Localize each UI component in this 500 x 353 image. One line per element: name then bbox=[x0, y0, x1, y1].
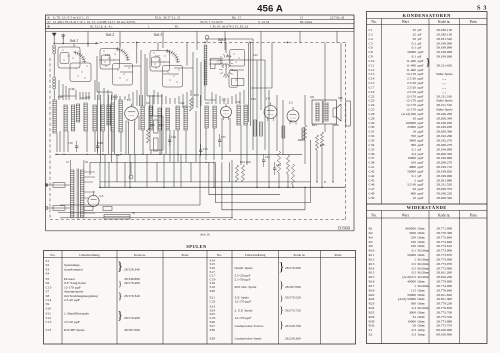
svg-text:28.773.880: 28.773.880 bbox=[436, 319, 452, 323]
svg-text:2: 2 bbox=[414, 178, 416, 182]
wire mesh lower left bbox=[45, 54, 345, 219]
svg-text:C22: C22 bbox=[369, 94, 375, 98]
svg-text:100000: 100000 bbox=[406, 121, 417, 125]
resistor R14 bbox=[45, 54, 345, 219]
svg-text:0.5: 0.5 bbox=[412, 262, 417, 266]
svg-text:28.587.690: 28.587.690 bbox=[124, 328, 140, 332]
svg-text:C11: C11 bbox=[369, 63, 375, 67]
svg-text:28.775.550: 28.775.550 bbox=[436, 315, 452, 319]
coil group RF bbox=[45, 54, 350, 219]
svg-text:C22: C22 bbox=[210, 299, 216, 303]
svg-text:28.811.280: 28.811.280 bbox=[436, 271, 452, 275]
svg-text:58.770.300: 58.770.300 bbox=[436, 231, 452, 235]
wire mesh mid bbox=[45, 54, 345, 219]
svg-text:29.180.130: 29.180.130 bbox=[436, 32, 452, 36]
svg-text:µµF: µµF bbox=[418, 59, 424, 63]
svg-text:10: 10 bbox=[413, 196, 417, 200]
svg-text:3.5-30: 3.5-30 bbox=[407, 183, 416, 187]
bus wire y162 bbox=[90, 161, 214, 163]
svg-text:28.199.990: 28.199.990 bbox=[436, 156, 452, 160]
svg-text:0.1: 0.1 bbox=[412, 147, 417, 151]
svg-text:R14: R14 bbox=[369, 266, 375, 270]
svg-text:C30: C30 bbox=[369, 125, 375, 129]
svg-text:Lautsprecher Spule: Lautsprecher Spule bbox=[235, 337, 263, 341]
svg-text:800: 800 bbox=[411, 192, 417, 196]
svg-text:26.229.260: 26.229.260 bbox=[285, 337, 301, 341]
wire loops Sch.1 to coils bbox=[45, 36, 350, 219]
band switch Sch.2 bbox=[45, 36, 350, 219]
svg-text:29.199.090: 29.199.090 bbox=[436, 41, 452, 45]
svg-text:C23: C23 bbox=[369, 99, 375, 103]
svg-text:Ohm: Ohm bbox=[418, 253, 425, 257]
svg-text:Ohm: Ohm bbox=[418, 302, 425, 306]
svg-text:0.4: 0.4 bbox=[412, 306, 417, 310]
svg-text:2.5-50 µµF: 2.5-50 µµF bbox=[235, 277, 251, 281]
svg-text:R4: R4 bbox=[369, 235, 373, 239]
svg-text:11-490: 11-490 bbox=[406, 68, 416, 72]
svg-text:59.190.220: 59.190.220 bbox=[436, 192, 452, 196]
svg-text:S28: S28 bbox=[210, 337, 216, 341]
svg-text:M.Ohm: M.Ohm bbox=[418, 257, 429, 261]
svg-text:R15: R15 bbox=[369, 271, 375, 275]
svg-text:20: 20 bbox=[413, 187, 417, 191]
bus wire y182 bbox=[100, 181, 311, 183]
svg-text:S30: S30 bbox=[210, 328, 216, 332]
svg-text:V. 42 M: V. 42 M bbox=[258, 20, 269, 24]
svg-text:Preis: Preis bbox=[470, 20, 478, 24]
svg-text:08.100.900: 08.100.900 bbox=[436, 333, 452, 337]
svg-text:C10: C10 bbox=[58, 96, 63, 99]
svg-text:µµF: µµF bbox=[418, 152, 424, 156]
svg-text:28.199.030: 28.199.030 bbox=[436, 125, 452, 129]
svg-text:12-170: 12-170 bbox=[406, 108, 416, 112]
svg-text:}: } bbox=[117, 258, 123, 273]
svg-text:KONDENSATOREN: KONDENSATOREN bbox=[403, 13, 452, 18]
svg-text:}: } bbox=[280, 295, 283, 303]
resistor box pair R11 bbox=[45, 54, 350, 219]
svg-text:µµF: µµF bbox=[418, 90, 424, 94]
svg-text:C31: C31 bbox=[369, 130, 375, 134]
svg-text:Ohm: Ohm bbox=[418, 280, 425, 284]
capacitor C44 bbox=[45, 54, 345, 219]
svg-text:Preis: Preis bbox=[182, 253, 190, 257]
svg-text:C48: C48 bbox=[98, 142, 103, 145]
svg-text:C42: C42 bbox=[369, 169, 375, 173]
svg-text:28.774.000: 28.774.000 bbox=[436, 284, 452, 288]
svg-text:C32: C32 bbox=[369, 134, 375, 138]
waveband header table bbox=[45, 15, 354, 237]
capacitor C30 bbox=[45, 54, 345, 219]
svg-text:R10: R10 bbox=[150, 124, 155, 127]
svg-text:3400: 3400 bbox=[409, 139, 416, 143]
svg-text:C26: C26 bbox=[369, 112, 375, 116]
svg-text:M.Ohm: M.Ohm bbox=[418, 271, 429, 275]
svg-text:Siehe Spule: Siehe Spule bbox=[436, 108, 453, 112]
chassis dashed boundary bbox=[45, 31, 350, 236]
svg-text:}: } bbox=[278, 259, 284, 274]
svg-text:C25: C25 bbox=[226, 55, 231, 58]
svg-text:}: } bbox=[279, 280, 283, 290]
svg-text:R22: R22 bbox=[369, 297, 375, 301]
svg-text:C28: C28 bbox=[369, 116, 375, 120]
svg-text:2.5-50: 2.5-50 bbox=[407, 90, 416, 94]
svg-text:12-170: 12-170 bbox=[406, 94, 416, 98]
svg-text:C47: C47 bbox=[369, 187, 375, 191]
loudspeaker S28 bbox=[45, 54, 350, 219]
svg-text:Umschreibung: Umschreibung bbox=[79, 253, 100, 257]
svg-text:}: } bbox=[118, 291, 122, 301]
svg-text:C22: C22 bbox=[253, 54, 258, 57]
svg-text:µµF: µµF bbox=[418, 178, 424, 182]
svg-text:C6: C6 bbox=[369, 46, 373, 50]
svg-text:C13: C13 bbox=[105, 54, 110, 57]
svg-text:0.5: 0.5 bbox=[412, 266, 417, 270]
svg-text:C27: C27 bbox=[116, 154, 121, 157]
svg-text:R17: R17 bbox=[290, 120, 295, 123]
svg-text:800000: 800000 bbox=[406, 227, 417, 231]
svg-text:Ohm: Ohm bbox=[418, 244, 425, 248]
svg-text:Ohm: Ohm bbox=[418, 235, 425, 239]
svg-text:28.261.880: 28.261.880 bbox=[436, 178, 452, 182]
svg-text:28.206.320: 28.206.320 bbox=[436, 152, 452, 156]
svg-text:12-170 µµF: 12-170 µµF bbox=[235, 299, 252, 303]
svg-text:C37: C37 bbox=[369, 156, 375, 160]
svg-text:µµF: µµF bbox=[418, 169, 424, 173]
svg-text:R23: R23 bbox=[369, 302, 375, 306]
svg-text:C34: C34 bbox=[251, 98, 256, 101]
svg-text:32: 32 bbox=[413, 315, 417, 319]
svg-text:C42: C42 bbox=[265, 156, 270, 159]
svg-text:1 PL FL AL679-5 F1.P2.2A: 1 PL FL AL679-5 F1.P2.2A bbox=[210, 24, 249, 28]
svg-text:No.: No. bbox=[371, 214, 376, 218]
svg-text:28.779.650: 28.779.650 bbox=[436, 306, 452, 310]
svg-text:28.199.090: 28.199.090 bbox=[436, 174, 452, 178]
svg-text:C15: C15 bbox=[369, 81, 375, 85]
svg-text:28.206.370: 28.206.370 bbox=[436, 187, 452, 191]
svg-text:µµF: µµF bbox=[418, 130, 424, 134]
svg-text:µµF: µµF bbox=[418, 72, 424, 76]
svg-text:µµF: µµF bbox=[418, 187, 424, 191]
svg-text:R16: R16 bbox=[246, 161, 251, 164]
svg-text:C10: C10 bbox=[369, 59, 375, 63]
svg-text:1: 1 bbox=[414, 257, 416, 261]
wire drops to earth bus bbox=[45, 54, 343, 219]
capacitor C29 bbox=[45, 54, 345, 219]
resistor R23 bbox=[45, 54, 345, 219]
svg-text:S13: S13 bbox=[46, 328, 52, 332]
svg-text:1: 1 bbox=[414, 284, 416, 288]
svg-text:50000: 50000 bbox=[407, 50, 416, 54]
svg-text:29.211.520: 29.211.520 bbox=[436, 183, 452, 187]
svg-text:C41: C41 bbox=[369, 165, 375, 169]
svg-text:R25: R25 bbox=[320, 144, 325, 147]
svg-text:12-170: 12-170 bbox=[406, 99, 416, 103]
svg-text:µF: µF bbox=[418, 37, 422, 41]
svg-text:2.5-20: 2.5-20 bbox=[407, 85, 416, 89]
svg-text:115: 115 bbox=[411, 288, 416, 292]
svg-text:S21: S21 bbox=[310, 96, 315, 99]
svg-text:28.773.640: 28.773.640 bbox=[436, 235, 452, 239]
svg-text:KW-HF-Spule: KW-HF-Spule bbox=[64, 328, 85, 332]
svg-text:28.211.310: 28.211.310 bbox=[436, 103, 452, 107]
svg-text:R13: R13 bbox=[194, 94, 199, 97]
svg-text:58.196.200: 58.196.200 bbox=[436, 112, 452, 116]
svg-text:C45: C45 bbox=[369, 178, 375, 182]
svg-text:12-170: 12-170 bbox=[406, 72, 416, 76]
svg-text:Abb. 2b: Abb. 2b bbox=[200, 233, 210, 237]
svg-text:28.773.970: 28.773.970 bbox=[436, 262, 452, 266]
resistor R22 bbox=[45, 54, 345, 219]
svg-text:R12: R12 bbox=[159, 124, 164, 127]
svg-text:µµF: µµF bbox=[418, 103, 424, 107]
svg-text:08.100.960: 08.100.960 bbox=[436, 328, 452, 332]
svg-text:50000: 50000 bbox=[407, 253, 416, 257]
svg-text:28.776.640: 28.776.640 bbox=[436, 288, 452, 292]
svg-text:11-490: 11-490 bbox=[406, 63, 416, 67]
svg-text:26.579.490: 26.579.490 bbox=[124, 281, 140, 285]
svg-text:R16: R16 bbox=[369, 280, 375, 284]
svg-text:28.206.270: 28.206.270 bbox=[436, 143, 452, 147]
svg-text:C2: C2 bbox=[369, 32, 373, 36]
svg-text:Ohm: Ohm bbox=[418, 297, 425, 301]
svg-text:L3: L3 bbox=[100, 194, 104, 198]
svg-text:µF: µF bbox=[418, 28, 422, 32]
resistor R10 bbox=[45, 54, 345, 219]
svg-text:µµF: µµF bbox=[418, 121, 424, 125]
fuse Z2 bbox=[46, 54, 343, 219]
svg-text:C12: C12 bbox=[369, 68, 375, 72]
svg-text:C9: C9 bbox=[369, 55, 373, 59]
svg-text:}: } bbox=[279, 305, 283, 315]
svg-text:C:: C: bbox=[48, 20, 51, 24]
svg-text:28.771.090: 28.771.090 bbox=[436, 227, 452, 231]
svg-text:µµF: µµF bbox=[418, 112, 424, 116]
svg-text:C19: C19 bbox=[369, 90, 375, 94]
svg-text:µµF: µµF bbox=[418, 81, 424, 85]
svg-text:(A16) 50000: (A16) 50000 bbox=[398, 297, 416, 301]
svg-text:28.587.090: 28.587.090 bbox=[285, 285, 301, 289]
svg-text:Ohm: Ohm bbox=[418, 231, 425, 235]
svg-text:Bp. 15: Bp. 15 bbox=[232, 15, 242, 19]
svg-text:59.570.520: 59.570.520 bbox=[285, 296, 301, 300]
svg-text:}: } bbox=[425, 56, 430, 68]
svg-text:R22: R22 bbox=[298, 139, 303, 142]
svg-text:C5: C5 bbox=[369, 41, 373, 45]
svg-text:µµF: µµF bbox=[418, 68, 424, 72]
svg-text:12-170 µµF: 12-170 µµF bbox=[235, 316, 252, 320]
wire loops Sch.3 bbox=[45, 36, 350, 219]
svg-text:0.1: 0.1 bbox=[412, 174, 417, 178]
bus wire y205 bbox=[60, 204, 200, 206]
svg-text:C14: C14 bbox=[369, 77, 375, 81]
svg-text:M. 52.16. A. 41.: M. 52.16. A. 41. bbox=[90, 24, 113, 28]
svg-text:26.529.790: 26.529.790 bbox=[285, 324, 301, 328]
svg-text:Sch.2: Sch.2 bbox=[106, 33, 114, 37]
svg-text:C25: C25 bbox=[369, 108, 375, 112]
svg-text:Amp.: Amp. bbox=[418, 333, 426, 337]
svg-text:32: 32 bbox=[413, 28, 417, 32]
svg-text:Kode nr.: Kode nr. bbox=[438, 214, 450, 218]
svg-text:0.5: 0.5 bbox=[412, 271, 417, 275]
schematic frame bbox=[45, 28, 354, 236]
svg-text:C4: C4 bbox=[369, 37, 373, 41]
svg-text:28.206.270: 28.206.270 bbox=[436, 161, 452, 165]
svg-text:29.180.130: 29.180.130 bbox=[436, 28, 452, 32]
svg-text:10000: 10000 bbox=[407, 319, 416, 323]
svg-text:58.211.420: 58.211.420 bbox=[436, 63, 452, 67]
small reference labels bbox=[58, 54, 343, 215]
svg-text:SPULEN: SPULEN bbox=[186, 244, 207, 249]
svg-text:No.: No. bbox=[371, 20, 376, 24]
svg-text:0.1: 0.1 bbox=[412, 41, 417, 45]
svg-text:28.192.260: 28.192.260 bbox=[436, 134, 452, 138]
transformer taps bbox=[46, 54, 343, 219]
svg-text:µµF: µµF bbox=[418, 99, 424, 103]
svg-text:6.4: 6.4 bbox=[412, 152, 417, 156]
svg-text:50000: 50000 bbox=[407, 293, 416, 297]
svg-text:µF: µF bbox=[418, 41, 422, 45]
svg-text:28.579.490: 28.579.490 bbox=[124, 316, 140, 320]
svg-text:0.1: 0.1 bbox=[412, 55, 417, 59]
resistor R30 bbox=[45, 54, 345, 219]
capacitor C42 bbox=[45, 54, 345, 219]
svg-text:3200: 3200 bbox=[409, 231, 416, 235]
svg-text:C44: C44 bbox=[369, 174, 375, 178]
svg-text:µµF: µµF bbox=[418, 63, 424, 67]
svg-text:C30: C30 bbox=[68, 142, 73, 145]
svg-text:Ohm: Ohm bbox=[418, 293, 425, 297]
wire loops Sch.2 bbox=[45, 36, 350, 219]
svg-text:M.Ohm: M.Ohm bbox=[418, 306, 429, 310]
svg-text:µµF: µµF bbox=[418, 139, 424, 143]
svg-text:No.: No. bbox=[50, 253, 55, 257]
svg-text:L5: L5 bbox=[289, 101, 293, 105]
svg-text:M.Ohm: M.Ohm bbox=[418, 266, 429, 270]
svg-text:R14: R14 bbox=[240, 161, 245, 164]
svg-text:µF: µF bbox=[418, 46, 422, 50]
svg-text:25000: 25000 bbox=[407, 125, 416, 129]
stepped wires bottom right bbox=[45, 54, 343, 219]
svg-text:S10: S10 bbox=[46, 306, 52, 310]
svg-text:KW Osz. Spule: KW Osz. Spule bbox=[235, 285, 257, 289]
svg-text:R2: R2 bbox=[369, 231, 373, 235]
svg-text:28.211.310: 28.211.310 bbox=[436, 94, 452, 98]
svg-text:Siehe Spule: Siehe Spule bbox=[436, 99, 453, 103]
band switch Sch.1 bbox=[45, 36, 350, 219]
svg-text:28.529.340: 28.529.340 bbox=[124, 267, 140, 271]
svg-text:Kode nr.: Kode nr. bbox=[293, 253, 305, 257]
svg-text:2.5-50: 2.5-50 bbox=[407, 81, 416, 85]
svg-text:Ohm: Ohm bbox=[418, 315, 425, 319]
svg-text:C13: C13 bbox=[369, 72, 375, 76]
svg-text:28.199.710: 28.199.710 bbox=[436, 165, 452, 169]
svg-text:No.: No. bbox=[217, 253, 222, 257]
svg-text:Kode nr.: Kode nr. bbox=[134, 253, 146, 257]
svg-text:C33: C33 bbox=[369, 139, 375, 143]
svg-text:28.810.290: 28.810.290 bbox=[436, 275, 452, 279]
svg-text:R13: R13 bbox=[369, 262, 375, 266]
svg-text:58.199.090: 58.199.090 bbox=[436, 55, 452, 59]
svg-text:58.199.090: 58.199.090 bbox=[436, 46, 452, 50]
svg-text:700: 700 bbox=[411, 134, 417, 138]
svg-text:R5: R5 bbox=[369, 240, 373, 244]
svg-text:28.192.270: 28.192.270 bbox=[436, 139, 452, 143]
svg-text:C49: C49 bbox=[369, 192, 375, 196]
svg-text:WIDERSTÄNDE: WIDERSTÄNDE bbox=[407, 205, 447, 210]
svg-text:28.779.230: 28.779.230 bbox=[436, 302, 452, 306]
svg-text:C15: C15 bbox=[46, 320, 52, 324]
svg-text:Wert: Wert bbox=[402, 20, 409, 24]
svg-text:}: } bbox=[118, 280, 121, 288]
svg-text:R32: R32 bbox=[369, 324, 375, 328]
coil group oscillator bbox=[45, 54, 350, 219]
svg-text:0.3: 0.3 bbox=[412, 328, 417, 332]
svg-text:32: 32 bbox=[413, 32, 417, 36]
resistor R16 bbox=[45, 54, 345, 219]
mains transformer S1 S2 bbox=[46, 54, 343, 219]
svg-text:10: 10 bbox=[413, 116, 417, 120]
svg-text:µµF: µµF bbox=[418, 196, 424, 200]
svg-text:Z2: Z2 bbox=[369, 333, 373, 337]
svg-text:µF: µF bbox=[418, 147, 422, 151]
svg-text:28.774.610: 28.774.610 bbox=[436, 244, 452, 248]
svg-text:456 A: 456 A bbox=[257, 3, 283, 14]
svg-text:R1: R1 bbox=[369, 227, 373, 231]
svg-text:Preis: Preis bbox=[335, 253, 343, 257]
svg-text:µµF: µµF bbox=[418, 125, 424, 129]
wire mesh switch zone horizontals bbox=[45, 36, 350, 219]
svg-text:10000: 10000 bbox=[407, 156, 416, 160]
tube L4 bbox=[45, 54, 350, 219]
svg-text:250: 250 bbox=[411, 240, 417, 244]
svg-text:Ohm: Ohm bbox=[418, 240, 425, 244]
svg-text:µµF: µµF bbox=[418, 50, 424, 54]
svg-text:C46: C46 bbox=[369, 183, 375, 187]
svg-text:R18: R18 bbox=[369, 288, 375, 292]
wire loops Sch.4 bbox=[45, 36, 350, 219]
wire antenna rail bbox=[54, 43, 99, 45]
svg-text:50000: 50000 bbox=[407, 169, 416, 173]
svg-text:S 3: S 3 bbox=[477, 5, 487, 12]
resistor R25 bbox=[45, 54, 345, 219]
svg-text:}: } bbox=[279, 320, 283, 330]
svg-text:28.773.900: 28.773.900 bbox=[436, 266, 452, 270]
choke S5 bbox=[46, 54, 343, 219]
svg-text:Ohm: Ohm bbox=[418, 227, 425, 231]
svg-text:R24: R24 bbox=[369, 306, 375, 310]
coil table SPULEN bbox=[44, 15, 356, 344]
svg-text:L4: L4 bbox=[266, 97, 270, 101]
svg-text:28.199.030: 28.199.030 bbox=[436, 121, 452, 125]
svg-text:Wert: Wert bbox=[402, 214, 409, 218]
svg-text:C36: C36 bbox=[369, 152, 375, 156]
svg-text:28.206.340: 28.206.340 bbox=[436, 116, 452, 120]
resistor R24 bbox=[45, 54, 345, 219]
svg-text:}: } bbox=[117, 308, 123, 322]
phone jack C27 bbox=[45, 54, 343, 219]
svg-text:M.Ohm: M.Ohm bbox=[418, 284, 429, 288]
svg-text:C17: C17 bbox=[155, 55, 160, 58]
svg-text:28.199.820: 28.199.820 bbox=[436, 169, 452, 173]
tube L2 bbox=[45, 54, 350, 219]
bus wire y218 bbox=[60, 217, 232, 219]
tube L5 bbox=[45, 54, 350, 219]
svg-text:C24: C24 bbox=[369, 103, 375, 107]
svg-text:Z1: Z1 bbox=[369, 328, 373, 332]
bus wire y213 bbox=[58, 212, 210, 214]
svg-text:C29: C29 bbox=[369, 121, 375, 125]
svg-text:28.775.570: 28.775.570 bbox=[436, 324, 452, 328]
